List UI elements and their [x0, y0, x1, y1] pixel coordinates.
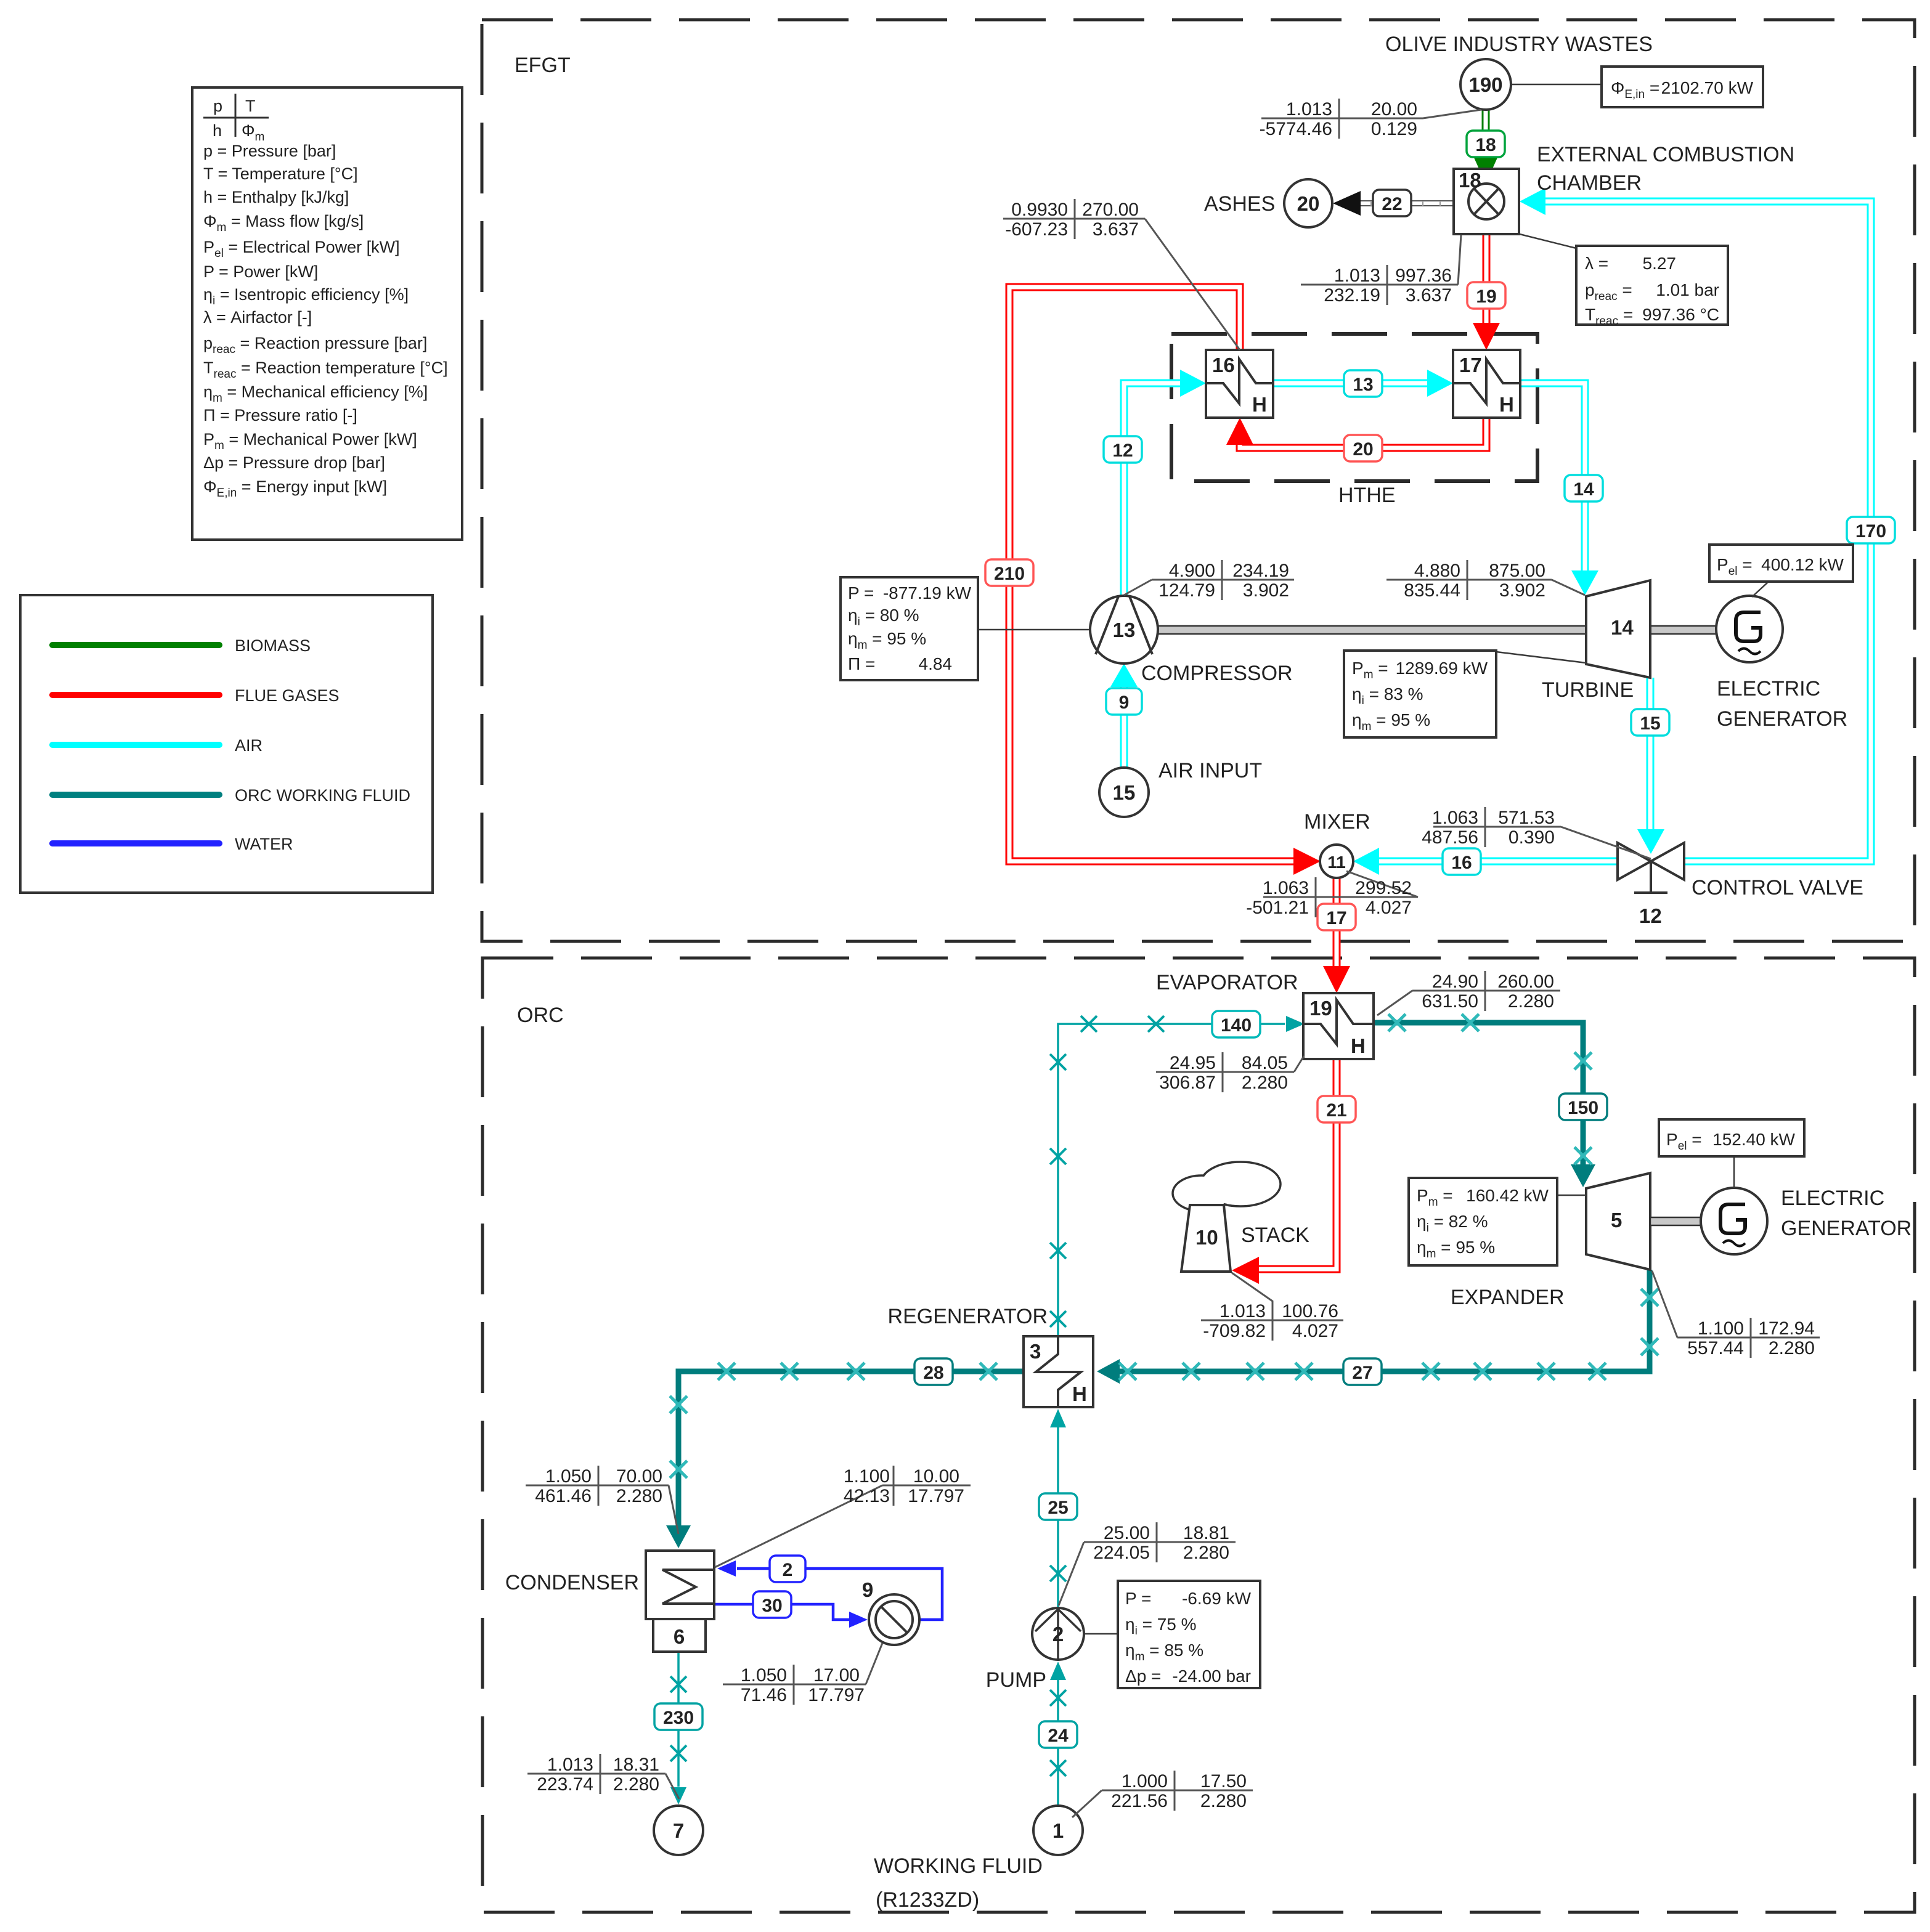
external combustion chamber box 18	[1454, 169, 1519, 234]
svg-text:AIR INPUT: AIR INPUT	[1158, 759, 1262, 782]
energy input box	[1602, 67, 1763, 107]
values chamber outlet 1.013/997.36	[1301, 235, 1461, 306]
svg-text:1.100: 1.100	[844, 1466, 890, 1487]
turbine 14	[1586, 580, 1650, 678]
svg-text:17.00: 17.00	[813, 1665, 860, 1686]
svg-text:230: 230	[663, 1708, 694, 1728]
heat exchanger 16	[1206, 350, 1273, 418]
svg-text:0.129: 0.129	[1371, 119, 1417, 139]
svg-text:224.05: 224.05	[1093, 1543, 1150, 1563]
svg-text:270.00: 270.00	[1082, 200, 1139, 220]
svg-text:997.36: 997.36	[1395, 266, 1452, 286]
svg-text:221.56: 221.56	[1111, 1791, 1168, 1811]
svg-text:H: H	[1499, 393, 1514, 416]
values valve inlet 1.063/571.53	[1422, 807, 1651, 859]
pipe 14 HX17 to turbine	[1517, 383, 1585, 573]
svg-text:10: 10	[1195, 1226, 1218, 1249]
values pump outlet 25.00/18.81	[1059, 1522, 1236, 1605]
stream label 27	[1343, 1358, 1382, 1385]
svg-text:10.00: 10.00	[913, 1466, 959, 1487]
symbol key box	[192, 87, 462, 540]
svg-text:H: H	[1351, 1034, 1366, 1057]
svg-text:223.74: 223.74	[537, 1774, 593, 1795]
legend line orc working fluid	[52, 792, 219, 798]
svg-text:20: 20	[1297, 192, 1320, 215]
svg-text:λ = Airfactor [-]: λ = Airfactor [-]	[203, 308, 312, 327]
svg-text:19: 19	[1309, 997, 1332, 1020]
svg-text:28: 28	[923, 1363, 943, 1383]
svg-text:H: H	[1072, 1382, 1087, 1405]
ORC dashed boundary box	[482, 958, 1915, 1912]
svg-text:COMPRESSOR: COMPRESSOR	[1141, 662, 1293, 685]
svg-text:17.50: 17.50	[1200, 1771, 1247, 1792]
svg-text:PUMP: PUMP	[986, 1668, 1046, 1692]
svg-text:STACK: STACK	[1241, 1224, 1309, 1247]
svg-text:1.013: 1.013	[1334, 266, 1380, 286]
regenerator 3	[1024, 1336, 1093, 1407]
pipe 170 control valve to chamber	[1542, 201, 1871, 861]
stream label 140	[1212, 1011, 1260, 1037]
pipe 17 flue gas mixer to evaporator	[1333, 877, 1341, 971]
water pipe 2 fan to condenser	[737, 1569, 942, 1620]
stream label 18	[1467, 131, 1505, 157]
svg-text:150: 150	[1568, 1098, 1598, 1118]
svg-text:BIOMASS: BIOMASS	[235, 636, 311, 655]
svg-text:9: 9	[1119, 692, 1130, 713]
svg-text:24.90: 24.90	[1432, 972, 1478, 992]
svg-text:1.063: 1.063	[1432, 808, 1478, 828]
svg-text:12: 12	[1639, 904, 1662, 927]
svg-text:1: 1	[1053, 1819, 1064, 1842]
stream label 170	[1847, 517, 1895, 543]
svg-text:ORC: ORC	[517, 1004, 564, 1027]
svg-text:T: T	[245, 97, 256, 115]
svg-text:-5774.46: -5774.46	[1260, 119, 1332, 139]
pipe 19 flue gas chamber to HX17	[1483, 234, 1491, 328]
svg-text:19: 19	[1476, 286, 1496, 307]
svg-text:3.902: 3.902	[1243, 580, 1289, 601]
svg-text:1.013: 1.013	[1219, 1301, 1266, 1321]
electric generator EFGT	[1716, 596, 1783, 662]
svg-text:1.063: 1.063	[1263, 878, 1309, 898]
stream label 30 water	[753, 1591, 791, 1618]
svg-text:18: 18	[1475, 135, 1496, 155]
svg-text:ELECTRIC: ELECTRIC	[1781, 1187, 1884, 1210]
svg-text:260.00: 260.00	[1497, 972, 1554, 992]
stream label 14	[1565, 475, 1603, 501]
svg-text:2.280: 2.280	[1200, 1791, 1247, 1811]
HTHE dashed box	[1171, 334, 1537, 481]
stream label 16	[1443, 848, 1481, 875]
svg-text:835.44: 835.44	[1404, 580, 1460, 601]
svg-text:-607.23: -607.23	[1005, 219, 1068, 240]
svg-text:Δp =-24.00 bar: Δp =-24.00 bar	[1125, 1666, 1251, 1686]
pipe 210 flue gas HX16 to mixer	[1009, 287, 1300, 861]
svg-text:16: 16	[1451, 853, 1472, 873]
svg-text:P =-6.69 kW: P =-6.69 kW	[1125, 1589, 1252, 1608]
svg-text:HTHE: HTHE	[1338, 484, 1396, 507]
svg-text:70.00: 70.00	[616, 1466, 662, 1487]
svg-text:0.390: 0.390	[1509, 827, 1555, 848]
pump P box	[1118, 1581, 1260, 1688]
pipe 13 HX16 to HX17	[1273, 379, 1431, 388]
svg-text:12: 12	[1112, 440, 1133, 461]
svg-text:-709.82: -709.82	[1203, 1321, 1266, 1341]
svg-text:2.280: 2.280	[1769, 1338, 1815, 1358]
svg-text:1.013: 1.013	[1286, 99, 1332, 120]
stream label 2 water	[770, 1556, 805, 1582]
values stack 1.013/100.76	[1201, 1273, 1343, 1341]
svg-text:14: 14	[1573, 479, 1594, 500]
node 20 ashes	[1284, 179, 1332, 227]
svg-text:124.79: 124.79	[1158, 580, 1215, 601]
stream label 20	[1344, 435, 1382, 461]
cooling water fan 9	[869, 1594, 919, 1645]
svg-text:17: 17	[1459, 354, 1482, 376]
svg-text:190: 190	[1468, 73, 1502, 96]
svg-text:15: 15	[1113, 781, 1136, 804]
svg-text:3.902: 3.902	[1499, 580, 1545, 601]
pipe 27 expander to regenerator	[1115, 1270, 1650, 1371]
svg-text:17: 17	[1326, 908, 1346, 928]
generator Pel box ORC	[1733, 1156, 1735, 1188]
evaporator 19	[1303, 993, 1374, 1059]
values node 7 1.013/18.31	[527, 1754, 679, 1799]
stream label 24	[1039, 1721, 1077, 1748]
values biomass feed 1.013/20.00	[1260, 99, 1481, 139]
svg-text:EXTERNAL COMBUSTION: EXTERNAL COMBUSTION	[1537, 143, 1794, 166]
ashes arrow	[1333, 191, 1361, 216]
svg-text:2: 2	[783, 1560, 793, 1580]
stream label 21	[1317, 1096, 1356, 1122]
water pipe 30 condenser to fan	[714, 1604, 849, 1620]
pipe 21 flue gas evaporator to stack	[1254, 1059, 1337, 1269]
values expander outlet 1.100/172.94	[1652, 1271, 1820, 1358]
svg-text:ASHES: ASHES	[1204, 192, 1275, 216]
compressor 13	[1090, 596, 1158, 664]
pipe 9 air input to compressor	[1120, 685, 1128, 768]
svg-text:Π = Pressure ratio [-]: Π = Pressure ratio [-]	[203, 406, 357, 424]
svg-text:1.000: 1.000	[1122, 1771, 1168, 1792]
svg-text:T = Temperature [°C]: T = Temperature [°C]	[203, 164, 358, 183]
svg-text:5: 5	[1611, 1209, 1622, 1232]
svg-text:P =-877.19 kW: P =-877.19 kW	[848, 583, 972, 603]
pipe 16 control valve to mixer	[1375, 858, 1618, 866]
ashes conveyor line 22	[1359, 200, 1454, 206]
svg-text:WATER: WATER	[235, 835, 293, 853]
svg-text:1.050: 1.050	[741, 1665, 787, 1686]
pipe 230 condenser to node 7	[677, 1652, 680, 1787]
wire: callout olive wastes to phi box	[1511, 84, 1602, 86]
mixer node 11	[1320, 845, 1353, 878]
svg-text:571.53: 571.53	[1498, 808, 1555, 828]
svg-text:4.027: 4.027	[1366, 898, 1412, 918]
pipe 18 biomass green	[1482, 110, 1490, 159]
svg-text:6: 6	[674, 1625, 685, 1648]
svg-text:3: 3	[1030, 1340, 1041, 1363]
stream label 150	[1559, 1094, 1607, 1120]
svg-text:2.280: 2.280	[616, 1486, 662, 1506]
values evaporator ORC inlet 24.95/84.05	[1156, 1052, 1304, 1093]
svg-text:CHAMBER: CHAMBER	[1537, 171, 1642, 195]
svg-text:REGENERATOR: REGENERATOR	[888, 1305, 1048, 1328]
stream label 22	[1373, 190, 1411, 216]
svg-text:WORKING FLUID: WORKING FLUID	[874, 1854, 1043, 1878]
svg-text:22: 22	[1382, 194, 1402, 214]
svg-text:p: p	[213, 97, 222, 115]
pipe 24 working fluid node to pump	[1057, 1677, 1059, 1806]
svg-text:h: h	[213, 121, 222, 140]
p T h Phi-m cross table	[203, 117, 269, 119]
svg-text:299.52: 299.52	[1355, 878, 1412, 898]
node 15 air input	[1099, 768, 1149, 817]
svg-text:CONTROL VALVE: CONTROL VALVE	[1692, 876, 1863, 899]
svg-text:Δp = Pressure drop [bar]: Δp = Pressure drop [bar]	[203, 453, 385, 472]
shaft compressor-turbine	[1157, 626, 1587, 634]
values node 1 1.000/17.50	[1072, 1771, 1253, 1817]
svg-text:24: 24	[1048, 1726, 1069, 1746]
pipe 20 flue gas HX17 to HX16	[1240, 418, 1486, 448]
svg-text:306.87: 306.87	[1159, 1073, 1216, 1093]
svg-text:MIXER: MIXER	[1304, 810, 1370, 834]
svg-text:557.44: 557.44	[1687, 1338, 1744, 1358]
svg-text:11: 11	[1327, 853, 1346, 872]
stream label 25	[1039, 1493, 1077, 1520]
shaft expander-generator	[1650, 1217, 1701, 1225]
svg-text:232.19: 232.19	[1324, 285, 1380, 306]
stream label 15	[1631, 709, 1669, 736]
svg-text:P = Power [kW]: P = Power [kW]	[203, 262, 318, 281]
svg-text:487.56: 487.56	[1422, 827, 1478, 848]
stream label 19	[1467, 282, 1505, 309]
values condenser in 1.050/70.00	[526, 1466, 678, 1534]
svg-text:FLUE GASES: FLUE GASES	[235, 686, 340, 705]
values cooling water in 1.100/10.00	[715, 1466, 971, 1567]
svg-text:20: 20	[1353, 439, 1373, 460]
svg-text:2.280: 2.280	[613, 1774, 659, 1795]
colour legend box	[20, 595, 433, 893]
svg-text:875.00: 875.00	[1489, 561, 1545, 581]
turbine Pm box	[1496, 652, 1586, 663]
legend line flue gases	[52, 692, 219, 698]
svg-text:9: 9	[862, 1578, 873, 1601]
lambda reaction box	[1520, 234, 1576, 248]
values turbine inlet 4.880/875.00	[1386, 560, 1585, 601]
values mixer outlet 1.063/299.52	[1246, 871, 1418, 918]
stream label 28	[914, 1358, 953, 1385]
svg-text:631.50: 631.50	[1422, 991, 1478, 1012]
heat exchanger 17	[1453, 350, 1520, 418]
stream label 230	[654, 1703, 702, 1730]
svg-text:18.81: 18.81	[1183, 1523, 1229, 1543]
svg-text:16: 16	[1212, 354, 1235, 376]
svg-text:2.280: 2.280	[1183, 1543, 1229, 1563]
control valve 12	[1618, 843, 1651, 880]
svg-text:1.050: 1.050	[545, 1466, 592, 1487]
svg-text:ELECTRIC: ELECTRIC	[1717, 677, 1820, 700]
stream label 210	[985, 559, 1033, 586]
stream label 12	[1104, 436, 1142, 463]
svg-text:25.00: 25.00	[1104, 1523, 1150, 1543]
svg-text:461.46: 461.46	[535, 1486, 592, 1506]
svg-text:14: 14	[1611, 616, 1634, 639]
svg-text:OLIVE INDUSTRY WASTES: OLIVE INDUSTRY WASTES	[1385, 33, 1653, 56]
svg-text:18.31: 18.31	[613, 1755, 659, 1775]
pipe 15 turbine to control valve	[1647, 678, 1655, 830]
svg-text:30: 30	[762, 1596, 782, 1616]
svg-text:13: 13	[1113, 619, 1136, 641]
pipe 28 regenerator to condenser	[678, 1371, 1024, 1529]
node 190 olive industry wastes	[1460, 59, 1511, 110]
svg-text:71.46: 71.46	[741, 1685, 787, 1705]
stream label 9	[1106, 688, 1142, 715]
svg-text:15: 15	[1640, 713, 1660, 734]
values evaporator ORC outlet 24.90/260.00	[1377, 971, 1560, 1015]
svg-text:170: 170	[1855, 521, 1886, 542]
svg-text:4.880: 4.880	[1414, 561, 1460, 581]
pipe 12 compressor to HX16	[1124, 383, 1183, 596]
expander Pm box	[1557, 1195, 1586, 1196]
svg-text:13: 13	[1353, 375, 1373, 395]
svg-text:ORC WORKING FLUID: ORC WORKING FLUID	[235, 786, 410, 805]
svg-text:EVAPORATOR: EVAPORATOR	[1156, 971, 1298, 994]
stream label 17	[1317, 904, 1356, 930]
svg-text:TURBINE: TURBINE	[1542, 678, 1634, 702]
svg-text:25: 25	[1048, 1498, 1068, 1518]
pipe 140 regenerator to evaporator	[1058, 1024, 1285, 1336]
condenser 6	[646, 1551, 714, 1619]
node 7	[654, 1806, 703, 1855]
svg-text:17.797: 17.797	[908, 1486, 964, 1506]
svg-text:24.95: 24.95	[1170, 1053, 1216, 1073]
svg-text:18: 18	[1459, 169, 1481, 192]
svg-text:42.13: 42.13	[844, 1486, 890, 1506]
stream label 13	[1344, 370, 1382, 397]
stack 10	[1200, 1162, 1281, 1206]
svg-text:0.9930: 0.9930	[1011, 200, 1068, 220]
legend line biomass	[52, 642, 219, 648]
svg-text:210: 210	[994, 564, 1025, 584]
EFGT dashed boundary box	[482, 20, 1915, 941]
x marks on 27	[1641, 1289, 1658, 1306]
svg-text:EXPANDER: EXPANDER	[1451, 1286, 1565, 1309]
legend line water	[52, 840, 219, 846]
pipe 150 evaporator to expander	[1374, 1023, 1583, 1169]
svg-text:2.280: 2.280	[1508, 991, 1554, 1012]
svg-text:1.100: 1.100	[1698, 1318, 1744, 1339]
svg-text:(R1233ZD): (R1233ZD)	[876, 1888, 979, 1912]
pipe 25 pump to regenerator	[1057, 1411, 1059, 1608]
expander 5	[1586, 1173, 1650, 1270]
svg-text:p = Pressure [bar]: p = Pressure [bar]	[203, 142, 336, 160]
svg-text:172.94: 172.94	[1758, 1318, 1815, 1339]
svg-text:2: 2	[1053, 1623, 1064, 1646]
svg-text:100.76: 100.76	[1282, 1301, 1338, 1321]
x marks on 28	[980, 1363, 997, 1380]
svg-text:4.900: 4.900	[1169, 561, 1215, 581]
svg-text:CONDENSER: CONDENSER	[505, 1571, 639, 1594]
svg-text:21: 21	[1326, 1100, 1346, 1121]
svg-text:1.013: 1.013	[547, 1755, 593, 1775]
svg-text:20.00: 20.00	[1371, 99, 1417, 120]
electric generator ORC	[1701, 1188, 1767, 1254]
svg-text:EFGT: EFGT	[515, 54, 571, 77]
node 1 working fluid	[1033, 1806, 1083, 1855]
shaft turbine-generator	[1650, 626, 1717, 634]
svg-text:140: 140	[1221, 1015, 1252, 1036]
svg-text:4.027: 4.027	[1292, 1321, 1338, 1341]
values HX16 outlet 0.9930/270.00	[1003, 199, 1240, 350]
svg-text:3.637: 3.637	[1406, 285, 1452, 306]
values cooling water out 1.050/17.00	[723, 1643, 882, 1705]
wire compressor P-box	[978, 629, 1090, 631]
svg-text:AIR: AIR	[235, 736, 263, 755]
svg-text:27: 27	[1352, 1363, 1372, 1383]
svg-text:234.19: 234.19	[1232, 561, 1289, 581]
values compressor outlet 4.900/234.19	[1124, 560, 1294, 601]
compressor P box	[841, 577, 978, 680]
svg-text:2.280: 2.280	[1242, 1073, 1288, 1093]
svg-text:17.797: 17.797	[808, 1685, 865, 1705]
legend line air	[52, 742, 219, 748]
pump 2	[1084, 1633, 1118, 1635]
x marks on 150	[1388, 1014, 1406, 1031]
svg-text:H: H	[1252, 393, 1267, 416]
generator Pel box	[1752, 582, 1769, 597]
svg-text:84.05: 84.05	[1242, 1053, 1288, 1073]
svg-text:7: 7	[673, 1819, 684, 1842]
svg-text:h = Enthalpy [kJ/kg]: h = Enthalpy [kJ/kg]	[203, 188, 349, 206]
svg-text:GENERATOR: GENERATOR	[1781, 1217, 1912, 1240]
svg-text:GENERATOR: GENERATOR	[1717, 707, 1847, 731]
svg-text:3.637: 3.637	[1093, 219, 1139, 240]
svg-text:-501.21: -501.21	[1246, 898, 1309, 918]
